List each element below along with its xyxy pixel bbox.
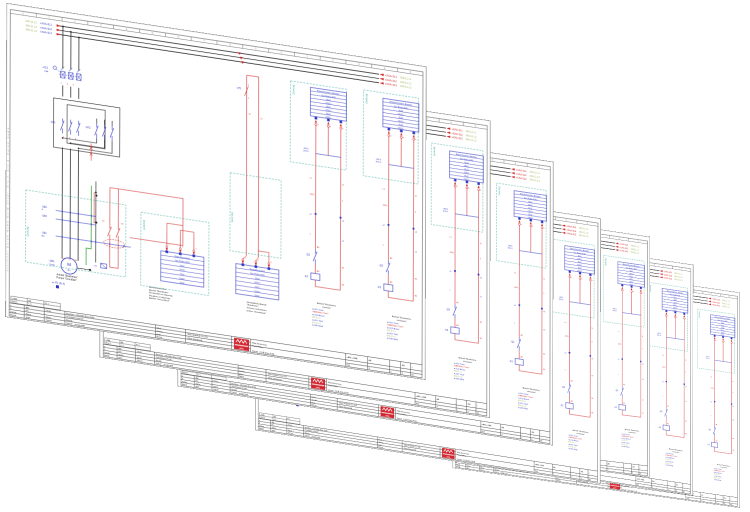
schematic sheet page 3 <box>178 106 554 446</box>
schematic sheet page 2 <box>100 63 491 418</box>
schematic sheet page 1 <box>5 3 426 380</box>
schematic sheet page 7 <box>453 250 741 508</box>
schematic sheet page 4 <box>255 167 601 484</box>
schematic sheet page 6 <box>394 221 693 496</box>
schematic sheet page 5 <box>328 189 650 477</box>
